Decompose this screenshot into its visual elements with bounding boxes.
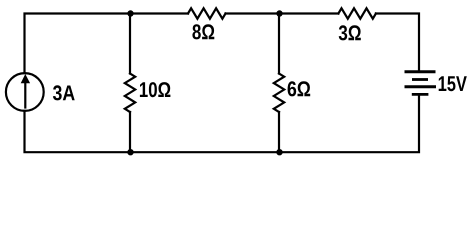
label 10Ω	[140, 82, 171, 97]
wire branch node A lower	[129, 112, 131, 152]
wire bottom segment	[25, 95, 420, 152]
battery V1 long plate 1	[405, 70, 436, 73]
resistor R3 10Ω zigzag	[125, 74, 135, 113]
label 3Ω	[339, 25, 361, 40]
junction dot bottom node B	[276, 149, 282, 155]
junction dot bottom node A	[127, 149, 133, 155]
battery V1 short plate 2	[412, 93, 429, 96]
current source I1 arrow shaft	[24, 81, 26, 108]
resistor R1 8Ω zigzag	[188, 8, 226, 18]
junction dot top node B	[276, 10, 282, 16]
battery V1 short plate 1	[412, 78, 428, 81]
wire branch node B upper	[278, 14, 280, 74]
wire top-right segment	[376, 14, 419, 71]
wire branch node A upper	[129, 14, 131, 74]
current source I1 circle	[6, 73, 44, 111]
battery V1 long plate 2	[405, 85, 437, 88]
resistor R4 6Ω zigzag	[274, 74, 284, 113]
resistor R2 3Ω zigzag	[338, 8, 376, 18]
junction dot top node A	[127, 10, 133, 16]
label 15V	[439, 76, 467, 91]
wire top-middle segment	[226, 12, 339, 14]
label 6Ω	[288, 81, 311, 96]
wire branch node B lower	[278, 112, 280, 152]
label 8Ω	[192, 24, 214, 39]
current source I1 arrowhead	[21, 74, 30, 83]
wire top-left segment	[25, 14, 189, 74]
label 3A	[53, 85, 75, 100]
